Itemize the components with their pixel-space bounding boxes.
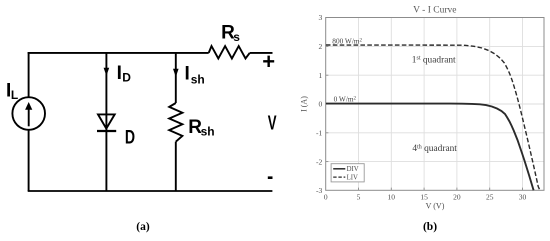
- svg-text:sh: sh: [191, 72, 205, 86]
- annotation 1st quadrant: [412, 56, 456, 66]
- label D: [125, 127, 135, 148]
- svg-text:D: D: [125, 127, 135, 148]
- resistor Rs: [209, 46, 250, 58]
- wire shunt branch (bottom): [175, 142, 177, 191]
- wire top-right segment: [250, 52, 273, 54]
- label (b): [423, 221, 437, 233]
- diode D: [97, 114, 116, 131]
- svg-text:-1: -1: [316, 129, 322, 138]
- axis ticks: [326, 46, 523, 190]
- wire shunt branch (top): [175, 53, 177, 103]
- svg-text:5: 5: [357, 192, 361, 201]
- svg-text:1: 1: [319, 71, 323, 80]
- resistor Rsh: [169, 103, 182, 142]
- svg-text:25: 25: [486, 192, 494, 201]
- svg-text:0: 0: [324, 192, 328, 201]
- svg-text:15: 15: [420, 192, 428, 201]
- svg-text:1st quadrant: 1st quadrant: [412, 56, 456, 66]
- arrow Ish: [173, 69, 179, 77]
- x tick labels: [324, 192, 527, 201]
- svg-text:+: +: [262, 49, 275, 74]
- wire bottom: [28, 190, 273, 192]
- label Ish: [185, 64, 205, 87]
- wire left vertical (bottom): [28, 130, 30, 191]
- label V: [268, 113, 277, 135]
- svg-text:0: 0: [319, 100, 323, 109]
- curve LIV dashed (800 W/m2): [326, 45, 540, 190]
- svg-text:L: L: [11, 88, 18, 102]
- svg-text:10: 10: [388, 192, 396, 201]
- svg-text:30: 30: [519, 192, 527, 201]
- svg-text:D: D: [122, 71, 131, 85]
- svg-text:sh: sh: [201, 125, 215, 139]
- svg-text:2: 2: [319, 42, 323, 51]
- wire top-left segment: [28, 52, 209, 54]
- svg-text:LIV: LIV: [347, 174, 358, 181]
- axes box: [326, 18, 544, 191]
- legend box: [331, 164, 364, 182]
- curve DIV solid (0 W/m2): [326, 104, 534, 191]
- grid horizontal lines: [326, 46, 544, 161]
- label ID: [117, 63, 132, 85]
- y axis label I (A): [300, 96, 309, 112]
- wire diode branch: [105, 53, 107, 191]
- svg-text:V: V: [268, 113, 277, 135]
- label Rs: [221, 23, 240, 45]
- plus terminal: [262, 49, 275, 74]
- svg-text:I: I: [185, 64, 190, 85]
- svg-text:(b): (b): [423, 221, 437, 233]
- grid vertical lines: [359, 18, 523, 191]
- chart title: [413, 6, 456, 16]
- svg-text:I (A): I (A): [300, 96, 309, 112]
- svg-text:3: 3: [319, 13, 323, 22]
- label Rsh: [188, 117, 214, 139]
- annotation 0 W/m2: [334, 95, 357, 104]
- label (a): [136, 221, 150, 233]
- svg-text:-2: -2: [316, 157, 322, 166]
- minus terminal: [268, 176, 273, 179]
- y tick labels: [316, 13, 323, 195]
- x axis label V (V): [426, 202, 445, 211]
- svg-text:I: I: [117, 63, 122, 84]
- svg-text:0 W/m2: 0 W/m2: [334, 95, 357, 104]
- annotation 800 W/m2: [332, 37, 362, 46]
- arrow ID: [104, 68, 110, 76]
- label IL: [6, 80, 18, 102]
- svg-text:4th quadrant: 4th quadrant: [412, 144, 457, 154]
- svg-text:s: s: [233, 30, 240, 44]
- svg-text:V (V): V (V): [426, 202, 445, 211]
- svg-text:-3: -3: [316, 186, 322, 195]
- annotation 4th quadrant: [412, 144, 457, 154]
- svg-text:V - I Curve: V - I Curve: [413, 6, 456, 16]
- svg-text:(a): (a): [136, 221, 150, 233]
- wire left vertical (top): [28, 52, 30, 97]
- svg-text:20: 20: [453, 192, 461, 201]
- current source IL: [12, 97, 45, 130]
- svg-text:DIV: DIV: [347, 166, 359, 173]
